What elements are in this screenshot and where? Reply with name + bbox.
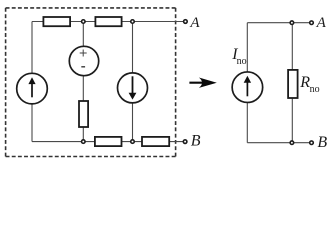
node junction top right <box>131 20 135 24</box>
node junction top right circuit <box>290 21 294 25</box>
wire right branch right circuit <box>291 23 293 143</box>
resistor R5 (bottom right) <box>142 137 169 146</box>
wire bottom rail right circuit <box>247 142 309 144</box>
svg-text:no: no <box>237 56 247 67</box>
wire bottom rail left circuit <box>32 141 183 143</box>
svg-text:A: A <box>189 15 200 31</box>
resistor R2 (top right) <box>95 17 121 26</box>
resistor Rno <box>288 70 298 98</box>
current source I2 (right branch, arrow down) <box>118 73 148 103</box>
current source I1 (left branch, arrow up) <box>17 73 48 104</box>
svg-text:B: B <box>317 134 327 151</box>
node junction bottom right <box>131 140 135 144</box>
svg-text:A: A <box>316 15 327 31</box>
svg-text:no: no <box>310 84 320 95</box>
arrow (transformation) <box>189 78 216 88</box>
terminal B (right circuit) <box>310 141 314 145</box>
terminal B (left circuit) <box>183 140 187 144</box>
wire top rail left circuit <box>32 21 183 23</box>
wire left branch <box>31 22 33 142</box>
svg-text:B: B <box>191 133 201 150</box>
terminal A (left circuit) <box>184 20 188 24</box>
wire top rail right circuit <box>247 22 309 24</box>
node junction bottom right circuit <box>290 141 294 145</box>
node junction bottom middle <box>82 140 86 144</box>
terminal A (right circuit) <box>310 21 314 25</box>
dashed network boundary box <box>6 8 176 157</box>
resistor R4 (bottom left) <box>95 137 122 146</box>
resistor R3 (middle vertical) <box>79 101 88 127</box>
wire left branch right circuit <box>246 23 248 143</box>
node junction top middle <box>82 20 86 24</box>
resistor R1 (top left) <box>43 17 70 26</box>
voltage source V1 (middle branch) <box>69 46 98 75</box>
current source Ino (arrow up) <box>232 72 263 103</box>
wire right branch <box>132 22 134 142</box>
wire middle branch <box>82 22 84 142</box>
